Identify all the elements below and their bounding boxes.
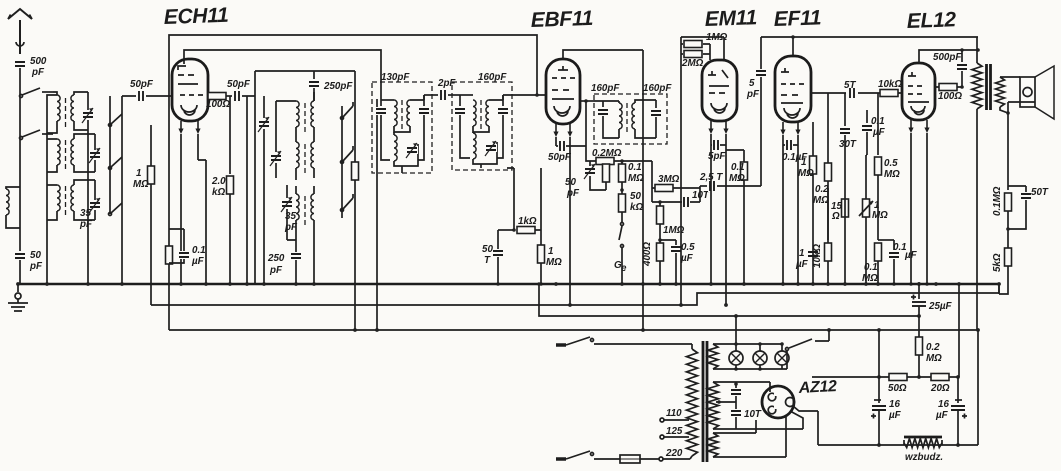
pilot lamp 1 [735, 344, 737, 351]
svg-text:3MΩ: 3MΩ [658, 174, 680, 185]
wire + resistor 0.1MΩ (EM grid) [726, 150, 744, 162]
antenna [8, 9, 32, 54]
svg-text:0.1: 0.1 [628, 162, 642, 173]
field coil wzbudz [904, 436, 942, 439]
resistor 0.1MΩ (field divider) [1005, 193, 1012, 211]
svg-text:100Ω: 100Ω [206, 99, 230, 110]
oscillator coil unit 3 [296, 194, 299, 220]
tube pins [780, 122, 785, 135]
capacitor 5pF (coupling, right) [760, 37, 762, 69]
junction dots on ground bus [16, 282, 1001, 286]
svg-text:100Ω: 100Ω [938, 91, 962, 102]
tube EBF11 [546, 59, 580, 124]
svg-text:50: 50 [630, 191, 641, 202]
svg-text:1MΩ: 1MΩ [706, 32, 728, 43]
wire IF2 to EBF11 grid [503, 94, 547, 96]
wire antenna down [19, 68, 21, 251]
svg-text:160pF: 160pF [643, 83, 672, 94]
transformer primary [691, 344, 693, 349]
capacitor 50T [1008, 186, 1026, 192]
svg-text:EM11: EM11 [704, 6, 757, 31]
wire to ground bus [19, 260, 21, 284]
capacitor 30T [844, 93, 846, 126]
capacitor 500pF [961, 50, 963, 62]
resistor 20Ω [931, 374, 949, 381]
svg-text:10kΩ: 10kΩ [812, 244, 823, 268]
trimmer capacitor 1 [87, 92, 89, 110]
pilot lamp 3 [781, 344, 783, 351]
trimmer (osc 3) + capacitor 35pF [286, 185, 288, 198]
tube pins [908, 120, 913, 133]
svg-text:µF: µF [795, 259, 809, 270]
svg-text:0.1MΩ: 0.1MΩ [992, 186, 1003, 216]
tube ECH11 [172, 59, 208, 121]
output transformer primary [976, 37, 978, 63]
IF1 primary coil [381, 99, 394, 101]
svg-text:250pF: 250pF [323, 81, 353, 92]
svg-text:µF: µF [680, 253, 694, 264]
svg-text:35: 35 [285, 211, 296, 222]
svg-text:10T: 10T [692, 190, 710, 201]
resistor 400Ω [658, 238, 662, 242]
capacitor 5pF (cathode) [711, 134, 726, 145]
svg-text:1: 1 [799, 248, 804, 259]
wires to bus [711, 145, 726, 305]
capacitor 50T [497, 230, 499, 249]
svg-text:500: 500 [30, 56, 47, 67]
svg-text:50pF: 50pF [130, 79, 154, 90]
resistor 50Ω [889, 374, 907, 381]
svg-text:50: 50 [565, 177, 576, 188]
resistor 1MΩ (g) [812, 122, 814, 156]
resistor (cathode lower) with rotated label [827, 188, 829, 240]
resistor 10kΩ [880, 90, 898, 97]
switch (band, upper) [20, 88, 54, 98]
junction dots on L2 [568, 303, 728, 307]
cathode output wire [793, 406, 818, 445]
resistor 3MΩ [652, 187, 700, 189]
svg-text:EF11: EF11 [773, 6, 821, 31]
tube pins [708, 121, 713, 134]
svg-text:MΩ: MΩ [729, 173, 745, 184]
IF3 secondary coil [632, 103, 635, 129]
wire osc grid line [242, 71, 255, 283]
HT winding [708, 382, 719, 429]
node grid line [122, 95, 173, 97]
svg-text:T: T [484, 255, 491, 266]
HT top wire to AZ12 anode [713, 382, 770, 392]
svg-text:pF: pF [31, 67, 45, 78]
oscillator coil unit 2 [296, 142, 299, 168]
capacitor 0.1uF (cathode) [783, 135, 798, 145]
capacitor 250pF (osc top) [308, 80, 320, 88]
capacitor 250pF (padder) [290, 252, 302, 260]
wire AVC down to bus2 [150, 184, 152, 305]
top loop wire (AVC line) [169, 35, 537, 330]
potentiometer 1MΩ [865, 155, 867, 199]
svg-text:130pF: 130pF [381, 72, 410, 83]
svg-text:160pF: 160pF [478, 72, 507, 83]
svg-text:1: 1 [136, 168, 141, 179]
svg-text:50T: 50T [1031, 187, 1049, 198]
capacitor 16uF (second) [957, 377, 959, 403]
IF2 primary coil [460, 94, 473, 96]
wire smoothing branch left [878, 330, 880, 377]
svg-text:2pF: 2pF [437, 78, 456, 89]
capacitor 50pF (osc) [226, 95, 232, 97]
capacitor 10T (buffer lower) [735, 402, 737, 409]
svg-text:MΩ: MΩ [133, 179, 149, 190]
capacitor 50pF (detector) [558, 140, 566, 152]
svg-text:MΩ: MΩ [546, 257, 562, 268]
switch (band, lower) [20, 130, 54, 140]
node grid [535, 93, 539, 97]
speaker [1000, 77, 1020, 113]
resistor 2MΩ [684, 51, 702, 58]
capacitor 0.5uF [660, 240, 676, 245]
bottom line [818, 444, 978, 446]
svg-text:220: 220 [665, 448, 683, 459]
svg-text:µF: µF [191, 256, 205, 267]
svg-text:0.2: 0.2 [926, 342, 940, 353]
taps 110/125/220 [659, 418, 692, 461]
svg-text:400Ω: 400Ω [642, 242, 653, 267]
resistor 1MΩ [681, 44, 710, 60]
capacitor 500pF [14, 60, 26, 68]
IF1 left capacitor [380, 100, 382, 106]
resistor (oscillator feed) [354, 71, 356, 163]
IF2 secondary coil [486, 100, 489, 126]
svg-text:pF: pF [746, 89, 760, 100]
IF can 1 box [372, 82, 432, 173]
HT center tap [716, 401, 736, 403]
capacitor 0.1uF (screen) [866, 110, 868, 123]
capacitor 50pF (antenna series) [14, 252, 26, 260]
top wire [761, 36, 978, 38]
svg-text:110: 110 [666, 408, 682, 419]
filament wires [713, 417, 786, 457]
IF3 right capacitor [655, 100, 657, 108]
antenna coil unit 1 [53, 92, 57, 95]
volume control: wire from can down [481, 164, 514, 230]
svg-text:µF: µF [935, 410, 949, 421]
svg-text:MΩ: MΩ [813, 195, 829, 206]
IF1 bottom coil + trimmer [394, 135, 397, 161]
svg-text:1: 1 [801, 157, 806, 168]
svg-text:50: 50 [30, 250, 41, 261]
wire join [699, 186, 701, 202]
svg-text:EBF11: EBF11 [530, 7, 593, 32]
resistor 50kΩ [621, 182, 623, 194]
svg-text:250: 250 [267, 253, 285, 264]
tube EM11 [702, 60, 737, 121]
IF2 right capacitor [502, 95, 504, 106]
transformer core [703, 341, 707, 462]
capacitor 5T [848, 87, 856, 99]
svg-text:1kΩ: 1kΩ [518, 216, 537, 227]
resistor 100Ω (screen) [935, 86, 962, 88]
svg-text:kΩ: kΩ [630, 202, 643, 213]
capacitor 1uF [807, 250, 819, 258]
bus L3 (short) [539, 284, 919, 316]
capacitor 16uF (first) [878, 377, 880, 403]
resistor 0.2MΩ [596, 158, 614, 165]
svg-text:0.5: 0.5 [884, 158, 898, 169]
resistor 0.2MΩ [827, 93, 829, 164]
svg-text:2MΩ: 2MΩ [681, 58, 704, 69]
resistor (det load) [603, 164, 610, 182]
switch Ge [621, 212, 623, 222]
svg-text:16: 16 [938, 399, 949, 410]
rectifier tube AZ12 [762, 386, 794, 418]
top cap wire (diode anode line) [563, 50, 643, 330]
svg-text:pF: pF [566, 188, 580, 199]
IF1 secondary coil [407, 100, 410, 126]
resistor 1MΩ (AVC) [150, 125, 152, 166]
svg-text:pF: pF [79, 219, 93, 230]
capacitor (buffer upper) [735, 384, 737, 388]
wire heater rail riser [735, 316, 737, 344]
mains plug lower [556, 457, 566, 461]
heater winding [708, 344, 718, 369]
resistor 0.2MΩ (bleeder) [918, 316, 920, 337]
wire primary bottom (B+) [976, 109, 978, 330]
svg-text:2.0: 2.0 [211, 176, 226, 187]
trimmer (osc 1) [263, 96, 265, 118]
svg-text:5kΩ: 5kΩ [992, 253, 1003, 272]
capacitor 2.5T [700, 185, 707, 187]
IF can 3 box [594, 94, 667, 144]
switch column wires [109, 96, 111, 214]
svg-text:0.5: 0.5 [681, 242, 695, 253]
svg-text:5T: 5T [844, 80, 856, 91]
filament winding [708, 433, 718, 457]
svg-text:e: e [621, 263, 627, 274]
pilot lamp 2 [759, 344, 761, 351]
capacitor 0.1uF (near bus) [893, 240, 895, 250]
wire + resistor 5kΩ [1007, 211, 1009, 248]
antenna coil unit 2 [57, 139, 60, 165]
svg-text:MΩ: MΩ [628, 173, 644, 184]
transformer core [987, 64, 991, 110]
antenna coil unit 3 [57, 185, 60, 211]
svg-text:10kΩ: 10kΩ [878, 79, 902, 90]
wire anode to IF3 [580, 100, 594, 102]
svg-text:0.2: 0.2 [815, 184, 829, 195]
bus L2 [151, 284, 999, 305]
svg-text:Ω: Ω [831, 211, 840, 222]
anode top wire [919, 50, 978, 63]
svg-text:pF: pF [29, 261, 43, 272]
fuse [594, 455, 659, 463]
anode top wire [184, 50, 381, 100]
svg-text:MΩ: MΩ [872, 210, 888, 221]
wire joining [866, 154, 867, 156]
svg-text:wzbudz.: wzbudz. [905, 452, 943, 463]
resistor 1MΩ (AF) [659, 202, 661, 208]
IF2 left capacitor [459, 95, 461, 106]
ground bus L1 [18, 283, 999, 285]
resistor 100Ω [208, 93, 226, 100]
resistor 1MΩ (volume) [540, 230, 542, 245]
wire IF1 ground leg [376, 99, 378, 330]
trimmer (osc 2) [275, 140, 277, 152]
svg-text:25µF: 25µF [928, 301, 953, 312]
divider wires [681, 37, 724, 305]
tube pins [553, 124, 558, 137]
resistor 0.5MΩ [877, 93, 879, 155]
svg-text:MΩ: MΩ [884, 169, 900, 180]
trimmer capacitor 3 [94, 180, 96, 200]
resistor 15Ω [842, 199, 849, 217]
svg-text:16: 16 [889, 399, 900, 410]
svg-text:10T: 10T [744, 409, 762, 420]
svg-text:pF: pF [269, 265, 283, 276]
wire ground riser right [958, 284, 960, 377]
frame aerial coil [6, 187, 20, 189]
switch column (osc) [341, 106, 343, 218]
svg-text:30T: 30T [839, 139, 857, 150]
speaker field wire [1007, 102, 1009, 190]
wire osc top link [255, 71, 355, 79]
junction dot on L3 [734, 314, 738, 318]
svg-text:50pF: 50pF [227, 79, 251, 90]
resistor 1kΩ [498, 229, 514, 231]
output transformer secondary [996, 77, 1005, 107]
svg-text:MΩ: MΩ [926, 353, 942, 364]
capacitor 10T [652, 201, 700, 203]
junction dots on L4 [353, 328, 980, 332]
capacitor 25uF (electrolytic) [917, 282, 921, 286]
lamp wiring bottom [713, 368, 787, 370]
svg-text:0.1: 0.1 [731, 162, 745, 173]
svg-text:125: 125 [666, 426, 683, 437]
heater switch [786, 330, 830, 369]
trimmer capacitor 2 [94, 134, 96, 150]
trimmer 50pF [589, 161, 591, 166]
oscillator coil unit 1 [296, 101, 299, 127]
svg-text:0.2MΩ: 0.2MΩ [592, 148, 622, 159]
HT bottom wire [713, 411, 803, 429]
svg-text:160pF: 160pF [591, 83, 620, 94]
svg-text:5: 5 [749, 78, 755, 89]
svg-text:20Ω: 20Ω [930, 383, 950, 394]
mains switch lower [566, 451, 594, 459]
svg-text:ECH11: ECH11 [163, 4, 228, 29]
tube pins [178, 121, 183, 134]
svg-text:kΩ: kΩ [212, 187, 225, 198]
resistor 20kΩ [229, 96, 231, 174]
ground [8, 284, 28, 311]
IF2 bottom coil + trimmer [473, 133, 476, 159]
svg-text:35: 35 [80, 208, 91, 219]
svg-text:1: 1 [548, 246, 553, 257]
svg-text:AZ12: AZ12 [797, 378, 837, 397]
resistor + capacitor 0.1uF (cathode RC on AVC line) [166, 246, 173, 264]
wire detector line [586, 146, 652, 161]
svg-text:50Ω: 50Ω [888, 383, 907, 394]
svg-text:0.1: 0.1 [192, 245, 206, 256]
IF3 left capacitor [594, 101, 603, 107]
svg-text:EL12: EL12 [906, 8, 956, 33]
screen line [811, 92, 903, 94]
tube EL12 [902, 63, 935, 120]
resistor 0.1MΩ [621, 161, 623, 164]
svg-text:MΩ: MΩ [798, 168, 814, 179]
svg-text:50pF: 50pF [548, 152, 572, 163]
capacitor 50pF (to ECH11 grid) [137, 90, 145, 102]
svg-text:500pF: 500pF [933, 52, 962, 63]
mains switch upper [566, 337, 692, 345]
mains plug upper [556, 343, 566, 347]
lamp wiring top [713, 343, 782, 345]
svg-text:50: 50 [482, 244, 493, 255]
resistor 0.1MΩ (lower) [875, 243, 882, 261]
svg-text:µF: µF [888, 410, 902, 421]
IF1 right capacitor [423, 95, 425, 106]
svg-text:MΩ: MΩ [862, 273, 878, 284]
tube EF11 [775, 56, 811, 122]
filter line [812, 376, 958, 378]
bus L4 (heater/B+) [169, 330, 978, 445]
svg-text:0.1: 0.1 [864, 262, 878, 273]
IF can 2 box [452, 82, 512, 170]
IF3 primary coil [603, 101, 619, 103]
wire AF line [651, 161, 653, 202]
